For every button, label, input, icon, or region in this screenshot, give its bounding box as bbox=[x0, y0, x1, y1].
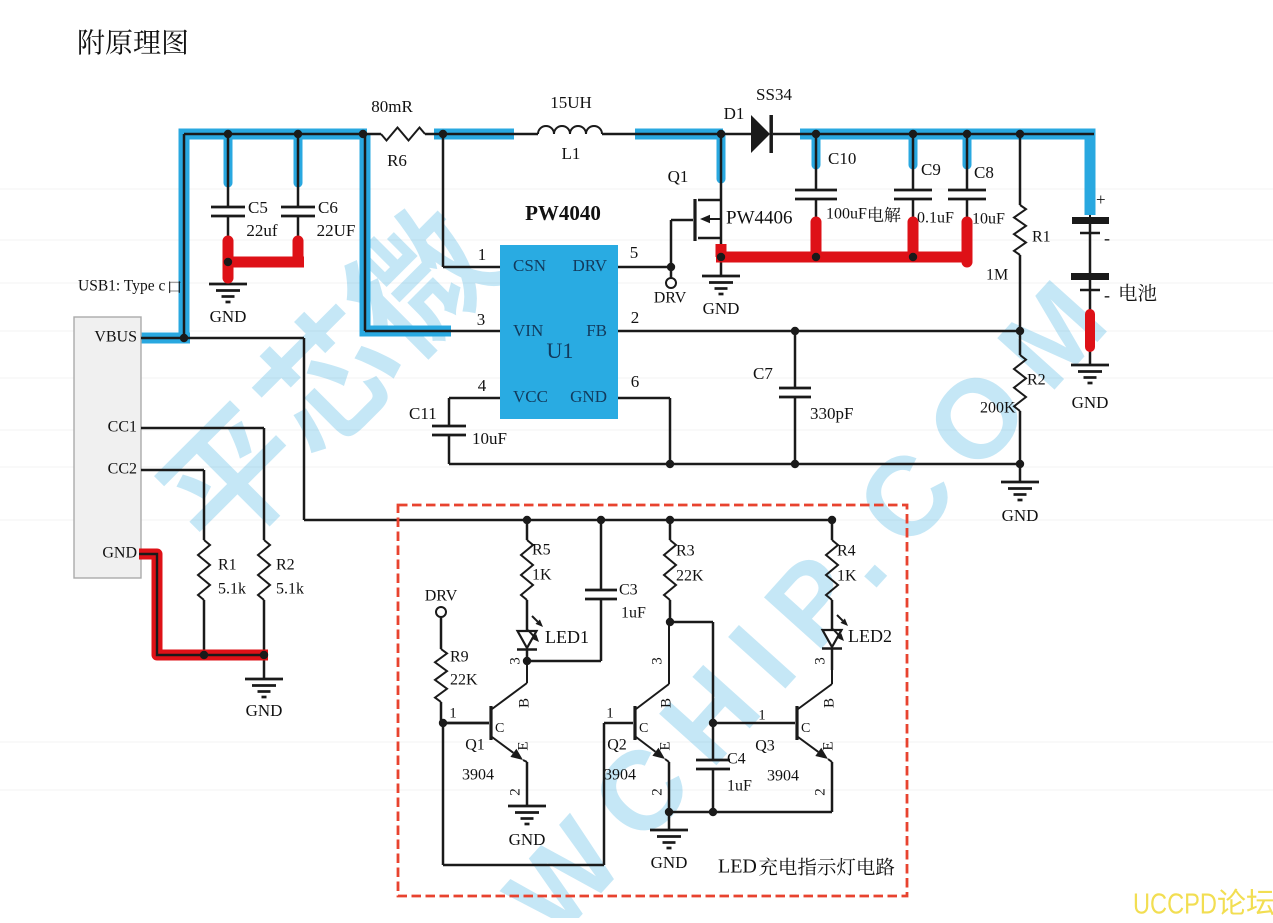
svg-text:L1: L1 bbox=[562, 144, 581, 163]
svg-text:C11: C11 bbox=[409, 404, 437, 423]
svg-text:1: 1 bbox=[758, 707, 766, 723]
svg-text:10uF: 10uF bbox=[972, 211, 1005, 228]
svg-text:U1: U1 bbox=[547, 338, 574, 363]
svg-text:C7: C7 bbox=[753, 364, 773, 383]
svg-text:3904: 3904 bbox=[767, 768, 799, 785]
svg-text:5.1k: 5.1k bbox=[276, 581, 304, 598]
svg-text:R2: R2 bbox=[276, 557, 295, 574]
svg-text:R4: R4 bbox=[837, 543, 856, 560]
svg-text:6: 6 bbox=[631, 372, 640, 391]
svg-text:22K: 22K bbox=[676, 568, 704, 585]
svg-text:GND: GND bbox=[1072, 393, 1109, 412]
svg-text:2: 2 bbox=[507, 788, 523, 796]
svg-text:CC2: CC2 bbox=[108, 461, 137, 478]
svg-text:DRV: DRV bbox=[654, 290, 687, 307]
svg-text:80mR: 80mR bbox=[371, 97, 413, 116]
svg-text:3: 3 bbox=[812, 657, 828, 665]
svg-text:15UH: 15UH bbox=[550, 93, 592, 112]
svg-text:D1: D1 bbox=[724, 104, 745, 123]
svg-text:LED2: LED2 bbox=[848, 626, 892, 646]
svg-text:C3: C3 bbox=[619, 582, 638, 599]
svg-text:R1: R1 bbox=[1032, 229, 1051, 246]
svg-text:C: C bbox=[639, 721, 648, 736]
svg-text:Q2: Q2 bbox=[607, 737, 627, 754]
svg-text:22uf: 22uf bbox=[246, 221, 278, 240]
svg-text:E: E bbox=[657, 741, 673, 750]
svg-text:330pF: 330pF bbox=[810, 404, 853, 423]
svg-text:22K: 22K bbox=[450, 672, 478, 689]
svg-text:B: B bbox=[658, 698, 674, 708]
svg-text:C4: C4 bbox=[727, 751, 746, 768]
svg-text:2: 2 bbox=[631, 308, 640, 327]
svg-text:2: 2 bbox=[812, 788, 828, 796]
svg-text:C: C bbox=[495, 721, 504, 736]
svg-text:3904: 3904 bbox=[604, 767, 636, 784]
svg-text:10uF: 10uF bbox=[472, 429, 507, 448]
svg-text:C10: C10 bbox=[828, 149, 856, 168]
svg-text:FB: FB bbox=[586, 321, 607, 340]
svg-text:22UF: 22UF bbox=[317, 221, 356, 240]
svg-text:C: C bbox=[801, 721, 810, 736]
svg-text:R9: R9 bbox=[450, 649, 469, 666]
svg-text:Q1: Q1 bbox=[465, 737, 485, 754]
svg-text:C6: C6 bbox=[318, 198, 338, 217]
svg-text:R1: R1 bbox=[218, 557, 237, 574]
svg-text:Q1: Q1 bbox=[668, 167, 689, 186]
svg-text:GND: GND bbox=[651, 853, 688, 872]
svg-text:3: 3 bbox=[649, 657, 665, 665]
svg-text:100uF: 100uF bbox=[826, 206, 867, 223]
svg-text:VCC: VCC bbox=[513, 387, 548, 406]
svg-text:GND: GND bbox=[509, 830, 546, 849]
svg-text:R2: R2 bbox=[1027, 372, 1046, 389]
svg-text:5: 5 bbox=[630, 243, 639, 262]
svg-text:3: 3 bbox=[507, 657, 523, 665]
svg-text:DRV: DRV bbox=[425, 588, 458, 605]
svg-text:1M: 1M bbox=[986, 267, 1008, 284]
svg-text:LED: LED bbox=[718, 856, 757, 878]
svg-text:PW4406: PW4406 bbox=[726, 207, 793, 228]
svg-text:DRV: DRV bbox=[572, 256, 607, 275]
svg-text:C9: C9 bbox=[921, 160, 941, 179]
svg-text:-: - bbox=[1104, 228, 1110, 248]
svg-text:UCCPD: UCCPD bbox=[1133, 889, 1217, 918]
svg-text:-: - bbox=[1104, 285, 1110, 305]
svg-text:SS34: SS34 bbox=[756, 85, 792, 104]
svg-text:3904: 3904 bbox=[462, 767, 494, 784]
svg-text:PW4040: PW4040 bbox=[525, 201, 601, 225]
svg-text:VIN: VIN bbox=[513, 321, 543, 340]
svg-text:5.1k: 5.1k bbox=[218, 581, 246, 598]
svg-text:1K: 1K bbox=[532, 567, 552, 584]
svg-text:200K: 200K bbox=[980, 400, 1016, 417]
svg-text:LED1: LED1 bbox=[545, 627, 589, 647]
svg-text:R6: R6 bbox=[387, 151, 407, 170]
svg-text:2: 2 bbox=[649, 788, 665, 796]
svg-text:CSN: CSN bbox=[513, 256, 546, 275]
svg-text:GND: GND bbox=[1002, 506, 1039, 525]
svg-text:E: E bbox=[515, 741, 531, 750]
svg-text:1: 1 bbox=[478, 245, 487, 264]
svg-text:4: 4 bbox=[478, 376, 487, 395]
svg-text:CC1: CC1 bbox=[108, 419, 137, 436]
svg-text:+: + bbox=[1096, 190, 1106, 209]
svg-text:1uF: 1uF bbox=[727, 778, 752, 795]
svg-text:GND: GND bbox=[102, 545, 137, 562]
svg-text:GND: GND bbox=[703, 299, 740, 318]
svg-text:GND: GND bbox=[570, 387, 607, 406]
svg-text:1: 1 bbox=[606, 705, 614, 721]
svg-text:1: 1 bbox=[449, 705, 457, 721]
svg-text:1K: 1K bbox=[837, 568, 857, 585]
svg-text:R5: R5 bbox=[532, 542, 551, 559]
svg-text:VBUS: VBUS bbox=[94, 329, 137, 346]
svg-text:GND: GND bbox=[246, 701, 283, 720]
svg-text:C8: C8 bbox=[974, 163, 994, 182]
svg-text:C5: C5 bbox=[248, 198, 268, 217]
svg-text:GND: GND bbox=[210, 307, 247, 326]
svg-text:3: 3 bbox=[477, 310, 486, 329]
svg-text:Q3: Q3 bbox=[755, 738, 775, 755]
svg-text:E: E bbox=[820, 741, 836, 750]
svg-text:B: B bbox=[821, 698, 837, 708]
svg-text:USB1: Type c: USB1: Type c bbox=[78, 278, 165, 295]
svg-text:B: B bbox=[516, 698, 532, 708]
svg-text:0.1uF: 0.1uF bbox=[917, 210, 954, 227]
svg-text:R3: R3 bbox=[676, 543, 695, 560]
svg-text:1uF: 1uF bbox=[621, 605, 646, 622]
